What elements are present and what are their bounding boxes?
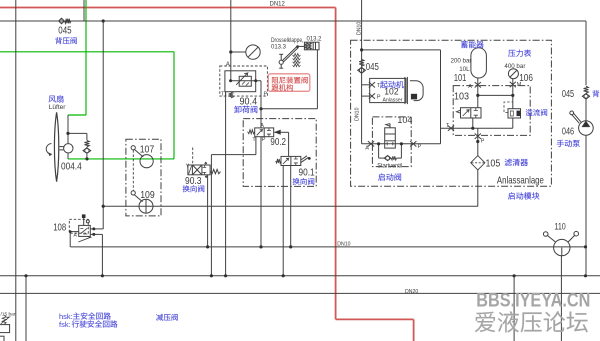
svg-text:Lüfter: Lüfter [49,104,66,111]
svg-text:DN20: DN20 [405,289,418,295]
svg-text:P: P [418,144,422,150]
svg-text:10L: 10L [459,66,470,73]
svg-text:90.4: 90.4 [240,96,258,107]
svg-text:90.3: 90.3 [185,176,202,187]
svg-text:045: 045 [562,89,575,100]
svg-text:Anlasser: Anlasser [383,97,403,103]
svg-text:90.1: 90.1 [299,168,315,179]
svg-text:004.4: 004.4 [61,162,82,173]
svg-text:200 bar: 200 bar [451,58,472,65]
svg-text:400 bar: 400 bar [504,63,525,70]
svg-text:107: 107 [140,144,155,155]
svg-text:103: 103 [454,92,469,103]
svg-text:A: A [226,62,230,68]
svg-text:P: P [264,91,268,97]
svg-text:013.2: 013.2 [307,37,323,43]
svg-text:109: 109 [140,190,155,201]
svg-text:P: P [377,94,381,100]
svg-text:DN12: DN12 [270,2,286,8]
svg-text:110: 110 [554,222,565,233]
svg-text:fsk:: fsk: [59,320,71,329]
svg-text:105: 105 [486,159,501,170]
svg-text:DN10: DN10 [337,241,350,247]
svg-text:P: P [262,137,266,143]
svg-text:A: A [468,84,472,90]
svg-text:106: 106 [519,73,533,84]
svg-text:108: 108 [53,222,66,233]
svg-text:045: 045 [366,62,379,73]
svg-text:046: 046 [562,127,575,138]
svg-text:DN10: DN10 [355,107,361,120]
svg-text:013.3: 013.3 [271,44,287,50]
svg-text:Y: Y [186,163,190,169]
svg-text:P: P [481,138,485,144]
svg-text:BBS.IYEYA.CN: BBS.IYEYA.CN [476,289,590,311]
svg-text:045: 045 [58,26,72,37]
svg-text:A: A [365,146,369,152]
svg-text:104: 104 [397,115,412,126]
svg-text:101: 101 [454,73,467,84]
svg-text:/15 bar: /15 bar [1,311,16,317]
svg-text:102: 102 [384,87,398,98]
svg-text:DN10: DN10 [357,22,363,35]
svg-text:A: A [260,123,264,129]
svg-text:Startventil: Startventil [377,164,402,170]
svg-text:Anlassanlage: Anlassanlage [497,175,544,187]
svg-text:Drosselklappe,: Drosselklappe, [271,38,304,44]
svg-text:90.2: 90.2 [270,137,286,148]
